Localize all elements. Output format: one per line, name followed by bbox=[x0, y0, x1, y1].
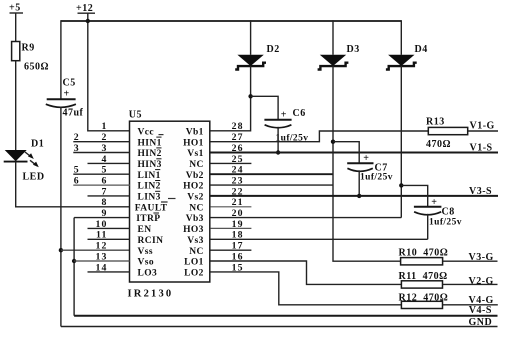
capacitor C7 bbox=[347, 153, 388, 174]
svg-text:Vs2: Vs2 bbox=[187, 193, 204, 203]
wire stub pin 21 NC bbox=[210, 206, 251, 208]
svg-text:HIN1: HIN1 bbox=[138, 138, 162, 148]
svg-text:HIN3: HIN3 bbox=[138, 160, 162, 170]
svg-text:LO3: LO3 bbox=[138, 269, 158, 279]
svg-text:V4-S: V4-S bbox=[469, 305, 492, 316]
svg-text:FAULT: FAULT bbox=[135, 203, 168, 213]
wire Vs3 (pin 18) to C8 bbox=[210, 238, 427, 240]
wire stub pin 17 NC bbox=[210, 249, 251, 251]
wire Vs1 (pin 26) to V1-S bbox=[210, 152, 498, 154]
svg-text:Vcc: Vcc bbox=[138, 127, 155, 137]
svg-text:V4-G: V4-G bbox=[469, 295, 494, 306]
svg-text:Vs3: Vs3 bbox=[187, 236, 204, 246]
svg-text:Vb2: Vb2 bbox=[186, 171, 204, 181]
wire V4-S rail bbox=[74, 315, 497, 317]
wire R10 to V3-G bbox=[443, 260, 498, 262]
LED D1 bbox=[4, 139, 45, 168]
svg-text:+12: +12 bbox=[76, 3, 93, 14]
wire Vso (pin 13) bbox=[74, 260, 130, 262]
svg-text:V3-G: V3-G bbox=[469, 252, 494, 263]
wire input to pin 6 bbox=[73, 184, 130, 186]
svg-text:RCIN: RCIN bbox=[138, 236, 164, 246]
wire D4 cathode down to Vb3 bbox=[400, 66, 402, 218]
svg-text:HO2: HO2 bbox=[183, 182, 204, 192]
svg-text:R13: R13 bbox=[426, 117, 445, 128]
svg-text:V2-G: V2-G bbox=[469, 276, 494, 287]
svg-text:LED: LED bbox=[23, 172, 45, 183]
svg-text:HO1: HO1 bbox=[183, 138, 204, 148]
wire rail to D2 bbox=[250, 20, 252, 55]
wire stub pin 25 NC bbox=[210, 162, 251, 164]
svg-text:D4: D4 bbox=[415, 44, 428, 55]
svg-text:12: 12 bbox=[96, 241, 108, 252]
svg-text:650Ω: 650Ω bbox=[24, 62, 49, 73]
svg-text:D2: D2 bbox=[267, 44, 280, 55]
wire input to pin 5 bbox=[73, 173, 130, 175]
wire C8 down to Vs3 row bbox=[427, 214, 429, 240]
node D3/HO1 junction bbox=[331, 140, 335, 144]
svg-text:U5: U5 bbox=[129, 110, 142, 121]
resistor R11 bbox=[399, 271, 448, 288]
wire Vss (pin 12) bbox=[61, 249, 130, 251]
svg-text:R12 470Ω: R12 470Ω bbox=[399, 292, 449, 303]
svg-text:Vb1: Vb1 bbox=[186, 127, 204, 137]
node Vss junction on ground drop bbox=[59, 248, 63, 252]
diode D4 (schottky) bbox=[386, 44, 428, 70]
wire pin 9 down to V4-S rail bbox=[73, 218, 75, 316]
svg-text:D1: D1 bbox=[31, 139, 44, 150]
power +12 bbox=[76, 3, 95, 14]
capacitor C6 bbox=[264, 108, 305, 128]
wire Vb2 (pin 24) to D3 column bbox=[210, 173, 333, 175]
wire R9 to D1 bbox=[15, 61, 17, 150]
svg-text:GND: GND bbox=[469, 317, 493, 328]
svg-text:NC: NC bbox=[189, 203, 204, 213]
svg-text:LIN3: LIN3 bbox=[138, 193, 161, 203]
wire D1 cathode down to FAULT row bbox=[16, 162, 130, 207]
wire junction to C6 bbox=[251, 96, 279, 120]
wire stub pin 19 HO3 bbox=[210, 227, 251, 229]
capacitor C5 bbox=[46, 78, 76, 108]
svg-text:1: 1 bbox=[102, 121, 108, 132]
wire C7 down to Vs2 row bbox=[358, 170, 360, 196]
svg-text:47uf: 47uf bbox=[63, 108, 84, 119]
svg-text:C5: C5 bbox=[63, 78, 76, 89]
svg-text:NC: NC bbox=[189, 160, 204, 170]
wire LO2 (pin 15) to R12 bbox=[210, 272, 401, 305]
svg-text:R10 470Ω: R10 470Ω bbox=[399, 247, 449, 258]
wire input to pin 2 bbox=[73, 141, 130, 143]
wire rail down to C5 bbox=[60, 20, 62, 99]
svg-text:LO1: LO1 bbox=[184, 258, 204, 268]
wire LO1 (pin 16) to R11 bbox=[210, 261, 401, 284]
node +12 on rail bbox=[86, 19, 90, 23]
op-amp driver IC U5 IR2130 body bbox=[130, 121, 210, 282]
node D2/C6 junction bbox=[248, 94, 252, 98]
resistor R10 bbox=[399, 247, 449, 265]
wire stub pin 14 bbox=[88, 271, 131, 273]
svg-text:V1-G: V1-G bbox=[470, 121, 495, 132]
svg-text:8: 8 bbox=[102, 197, 108, 208]
svg-text:EN: EN bbox=[138, 225, 152, 235]
svg-text:1uf/25v: 1uf/25v bbox=[360, 173, 393, 183]
wire C6 down to Vs1 row bbox=[277, 127, 279, 153]
svg-text:C8: C8 bbox=[442, 207, 455, 218]
svg-text:NC: NC bbox=[189, 247, 204, 257]
svg-text:R9: R9 bbox=[22, 43, 35, 54]
svg-text:V1-S: V1-S bbox=[470, 142, 493, 153]
wire D3 cathode down to R10 feed bbox=[333, 66, 401, 261]
svg-text:LIN1: LIN1 bbox=[138, 171, 161, 181]
svg-text:1uf/25v: 1uf/25v bbox=[429, 217, 462, 227]
node C6/Vs1 junction bbox=[276, 150, 280, 154]
svg-text:Vso: Vso bbox=[138, 258, 155, 268]
resistor R9 bbox=[12, 42, 35, 61]
wire +12 top rail bbox=[61, 20, 401, 22]
svg-text:R11 470Ω: R11 470Ω bbox=[399, 271, 448, 282]
wire Vs2 (pin 22) to V3-S bbox=[210, 195, 498, 197]
wire junction to C7 bbox=[333, 142, 359, 164]
stray mark after Vcc bbox=[159, 134, 164, 136]
svg-text:470Ω: 470Ω bbox=[426, 139, 451, 150]
wire R13 to V1-G bbox=[468, 130, 498, 132]
wire D2 cathode down to Vb1 (pin 28) bbox=[210, 66, 250, 131]
power +5 bbox=[9, 3, 23, 14]
svg-text:+5: +5 bbox=[9, 3, 21, 14]
wire +12 down to pin 1 (Vcc) bbox=[88, 13, 130, 131]
wire ITRIP pin 9 bbox=[74, 217, 130, 219]
wire stub pin 10 bbox=[88, 227, 131, 229]
wire stub pin 11 bbox=[88, 238, 131, 240]
svg-text:C6: C6 bbox=[293, 108, 306, 119]
svg-text:Vs1: Vs1 bbox=[187, 149, 204, 159]
wire input to pin 3 bbox=[73, 152, 130, 154]
wire HO2 (pin 23) to D3 column bbox=[210, 184, 333, 186]
diode D3 (schottky) bbox=[318, 44, 360, 70]
wire ground bottom rail to GND bbox=[61, 326, 498, 328]
wire stub pin 7 bbox=[88, 195, 131, 197]
svg-text:LO2: LO2 bbox=[184, 269, 204, 279]
wire R12 to V4-G bbox=[443, 304, 498, 306]
wire junction to C8 bbox=[401, 185, 427, 206]
svg-text:Vb3: Vb3 bbox=[186, 214, 204, 224]
wire C5 down to ground rail bbox=[60, 107, 62, 327]
svg-text:IR2130: IR2130 bbox=[128, 289, 174, 300]
svg-text:HIN2: HIN2 bbox=[138, 149, 162, 159]
wire rail to D4 bbox=[400, 20, 402, 55]
svg-text:Vss: Vss bbox=[138, 247, 153, 257]
capacitor C8 bbox=[414, 197, 455, 218]
node D4/C8 junction bbox=[399, 183, 403, 187]
wire +5 to R9 bbox=[15, 13, 17, 42]
svg-text:LIN2: LIN2 bbox=[138, 182, 161, 192]
svg-text:HO3: HO3 bbox=[183, 225, 204, 235]
wire rail to D3 bbox=[332, 20, 334, 55]
svg-text:V3-S: V3-S bbox=[469, 186, 492, 197]
resistor R12 bbox=[399, 292, 449, 308]
wire R11 to V2-G bbox=[443, 283, 498, 285]
wire Vb3 (pin 20) to D4 column bbox=[210, 217, 401, 219]
resistor R13 bbox=[426, 117, 468, 135]
diode D2 (schottky) bbox=[235, 44, 280, 70]
wire stub pin 4 bbox=[88, 162, 131, 164]
node C7/Vs2 junction bbox=[357, 194, 361, 198]
svg-text:+: + bbox=[64, 89, 70, 100]
svg-text:ITRP: ITRP bbox=[136, 214, 160, 224]
stray mark after LIN3 bbox=[168, 198, 176, 200]
wire Vb1 pin 28 handled above; wire HO1 pin 27 to R13 bbox=[210, 131, 428, 142]
node Vso junction bbox=[72, 259, 76, 263]
svg-text:D3: D3 bbox=[347, 44, 360, 55]
